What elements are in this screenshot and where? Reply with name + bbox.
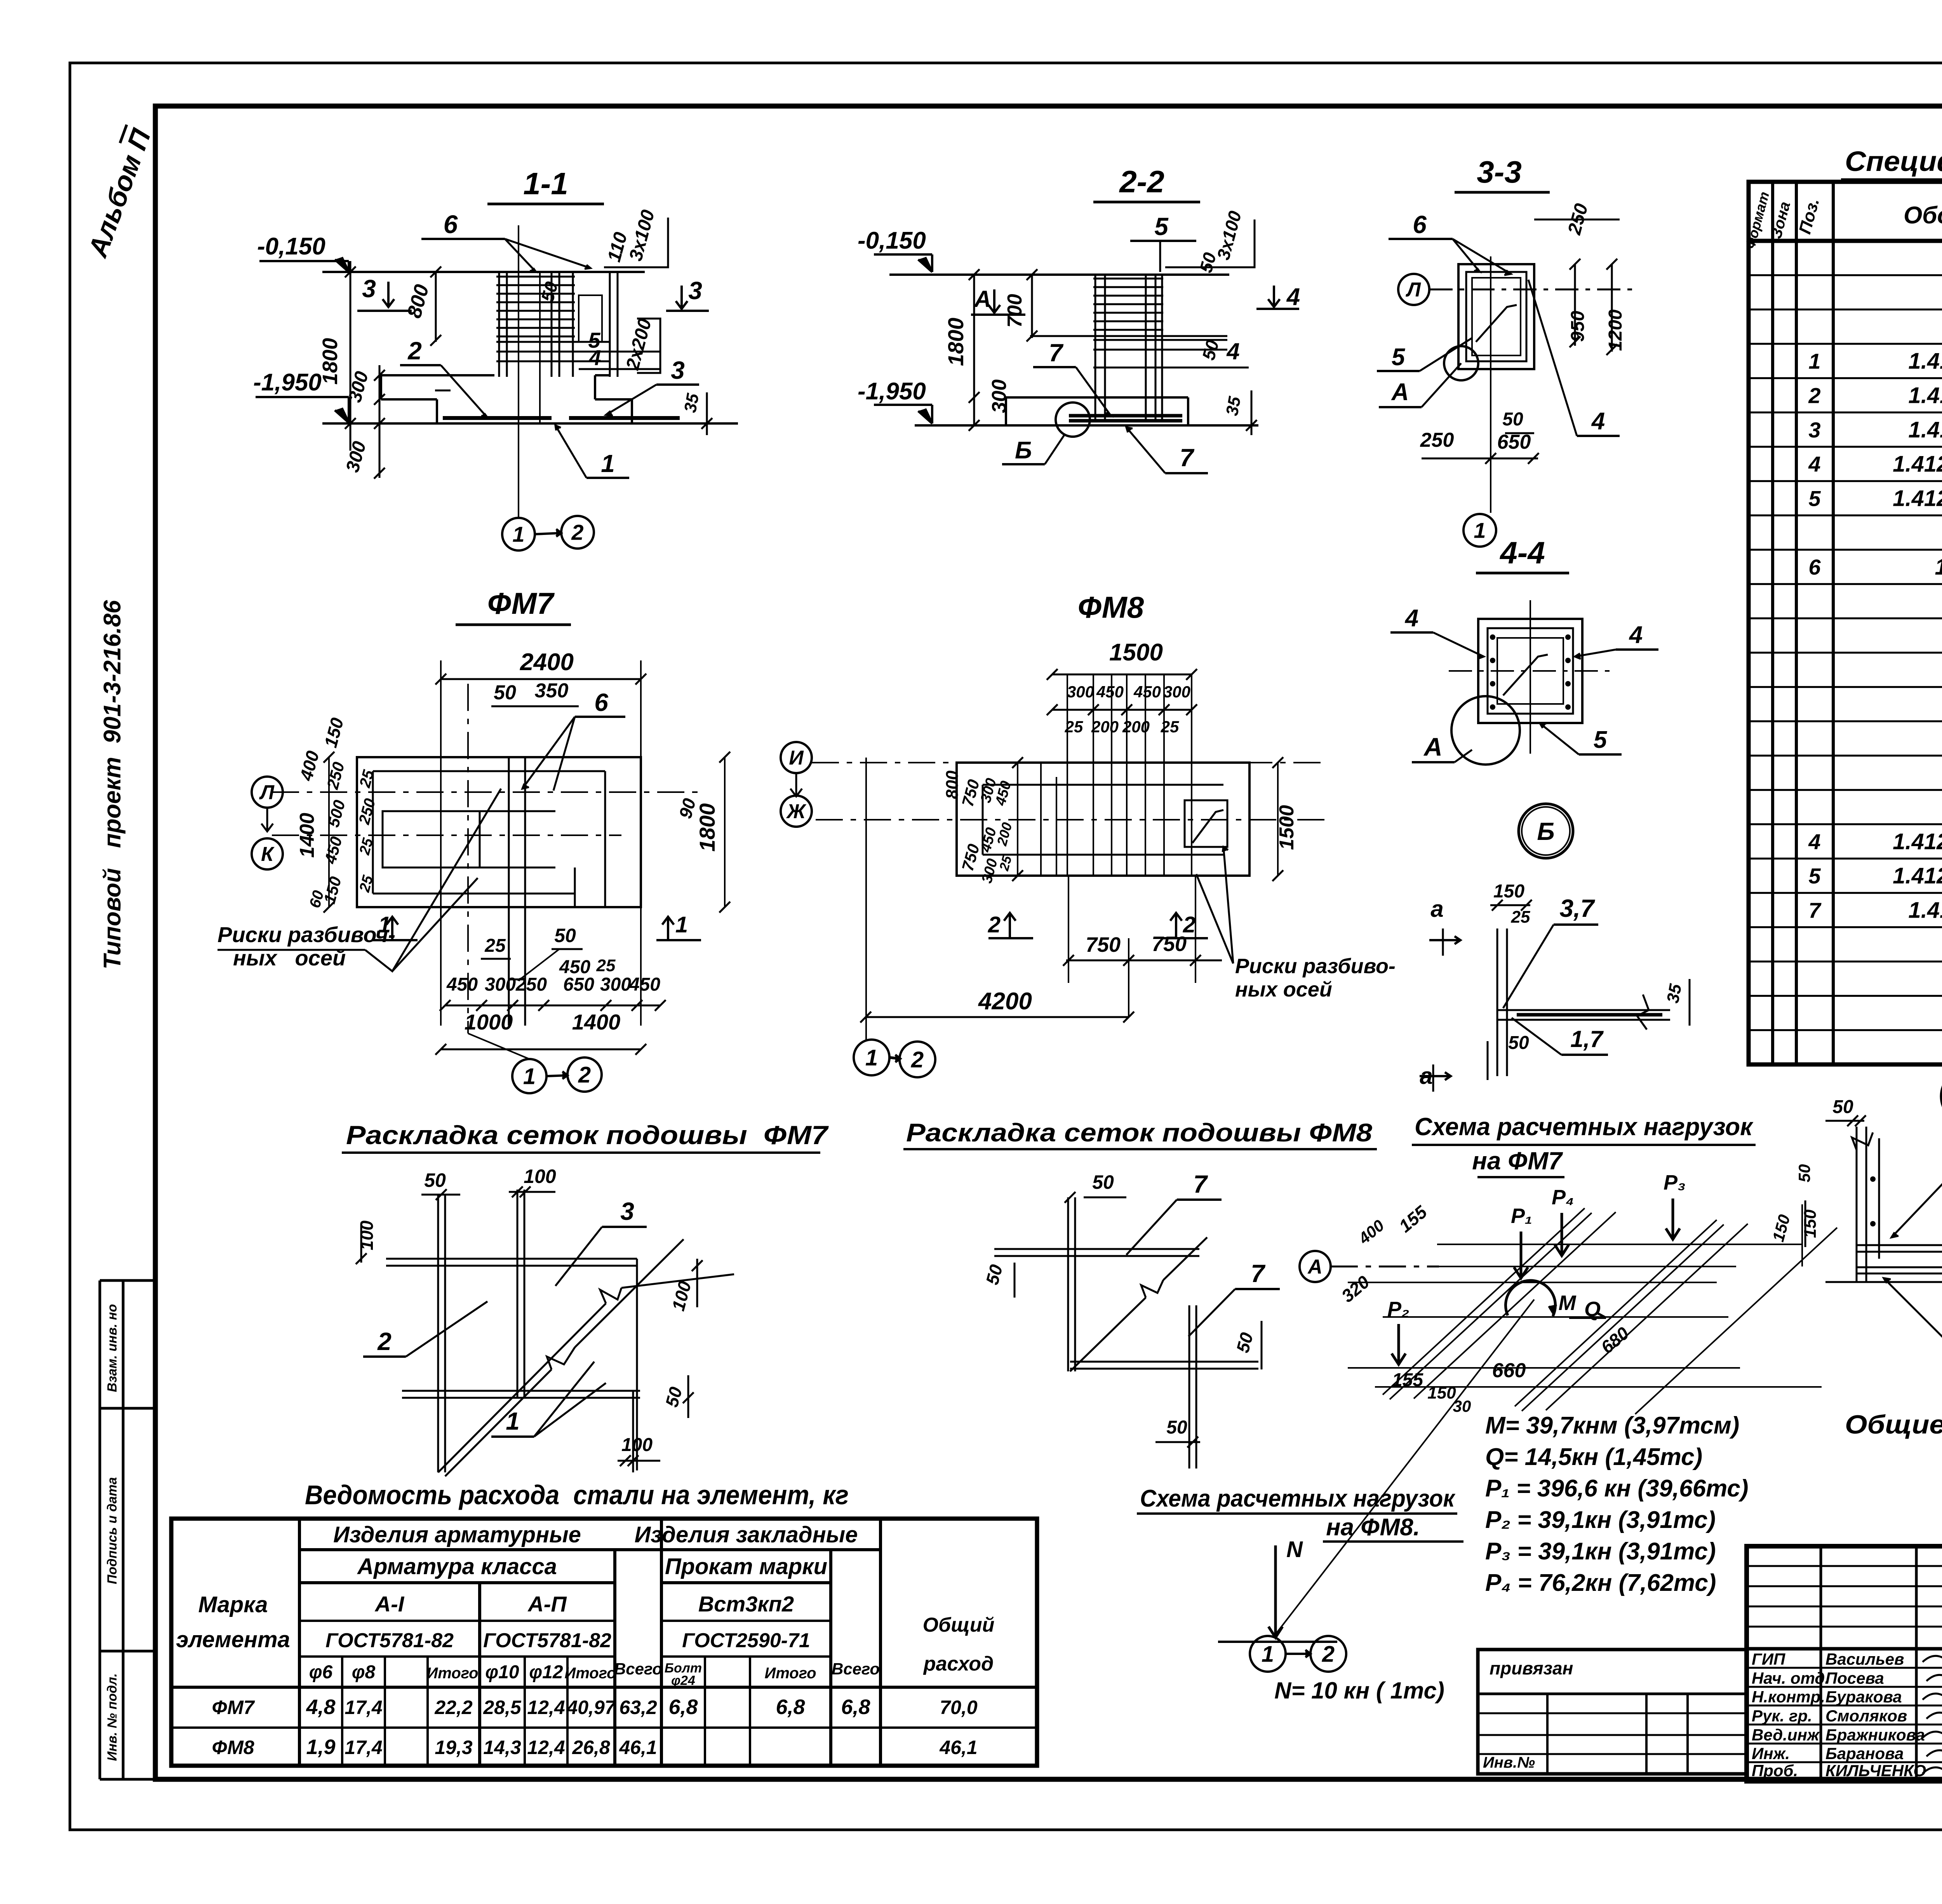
raskladka FM8 horizontal top [994,1248,1199,1250]
section 2-2 slab [1006,396,1188,399]
svg-text:700: 700 [1004,294,1026,328]
svg-text:50: 50 [1795,1164,1813,1183]
svg-text:50: 50 [1508,1033,1529,1053]
svg-text:ГОСТ2590-71: ГОСТ2590-71 [682,1629,810,1652]
svg-text:12,4: 12,4 [527,1697,565,1718]
svg-text:50: 50 [1166,1417,1187,1438]
svg-text:расход: расход [923,1653,994,1675]
svg-text:Поз.: Поз. [1795,196,1823,236]
svg-text:150: 150 [1769,1212,1794,1244]
svg-text:25: 25 [484,935,506,956]
svg-text:N: N [1286,1537,1303,1562]
scheme FM7 axis circle A [1300,1251,1331,1282]
detail B corner lines [1497,928,1498,1076]
section 1-1 bottom level line [322,422,738,425]
svg-text:1: 1 [675,912,688,937]
raskladka FM8 vertical bar left [1067,1197,1069,1371]
section 3-3 detail circle A [1444,346,1478,380]
svg-text:3,7: 3,7 [1560,894,1596,922]
svg-text:4: 4 [1286,284,1300,310]
svg-text:110: 110 [604,230,632,264]
FM8 plan outer rect [957,763,1249,876]
vedomost grid [171,1519,1037,1766]
svg-text:6: 6 [1808,555,1821,579]
svg-text:Ведомость расхода стали на эл: Ведомость расхода стали на элемент, кг [305,1480,849,1510]
svg-text:Итого: Итого [564,1665,616,1682]
FM7 plan left dim chains [328,757,330,907]
svg-text:φ12: φ12 [529,1662,563,1683]
scheme FM7 M arc and Q [1505,1280,1555,1316]
svg-text:3х100: 3х100 [1213,209,1245,262]
svg-text:14,3: 14,3 [483,1737,521,1758]
section 2-2 circle B detail [1056,402,1090,437]
svg-text:300: 300 [1067,683,1094,701]
svg-text:Итого: Итого [764,1665,816,1682]
svg-text:1-1: 1-1 [523,166,568,201]
svg-text:70,0: 70,0 [940,1697,978,1718]
svg-text:3: 3 [688,277,702,305]
svg-text:ФМ7: ФМ7 [212,1697,255,1718]
svg-text:Схема расчетных нагрузок: Схема расчетных нагрузок [1140,1485,1455,1512]
svg-text:1: 1 [512,522,524,547]
svg-text:100: 100 [357,1220,377,1250]
svg-text:5: 5 [1808,486,1821,511]
svg-text:25: 25 [1161,718,1179,736]
FM7 plan axis circles 1 2 [512,1059,546,1093]
svg-text:7: 7 [1808,898,1822,923]
svg-text:200: 200 [1091,718,1119,736]
section 4-4 rebar dots [1490,634,1495,640]
svg-text:N= 10 кн ( 1тс): N= 10 кн ( 1тс) [1274,1678,1444,1704]
svg-text:3-3: 3-3 [1477,155,1522,189]
svg-text:1.412-1/77 вып.3: 1.412-1/77 вып.3 [1893,863,1942,888]
side stamp cells [100,1279,155,1282]
FM7 plan axis circles L K [252,777,283,808]
svg-text:φ6: φ6 [309,1662,333,1683]
svg-text:6,8: 6,8 [776,1695,805,1719]
svg-text:6: 6 [594,688,608,716]
svg-text:250: 250 [323,760,348,791]
svg-text:1800: 1800 [318,338,342,385]
svg-text:1: 1 [1262,1641,1274,1667]
section 1-1 bottom mesh bars [443,416,552,420]
svg-text:680: 680 [1597,1323,1633,1357]
svg-text:ГОСТ5781-82: ГОСТ5781-82 [325,1629,454,1652]
svg-text:2х200: 2х200 [622,316,656,372]
svg-text:Л: Л [1405,279,1421,301]
svg-text:300: 300 [600,974,631,995]
svg-text:155: 155 [1395,1201,1431,1236]
detail A rebar dots [1870,1176,1876,1182]
svg-text:250: 250 [515,974,547,995]
svg-text:Спецификация фундаментов ФМ7,: Спецификация фундаментов ФМ7, ФМ8 [1845,146,1942,177]
svg-text:M= 39,7кнм (3,97тсм): M= 39,7кнм (3,97тсм) [1485,1412,1739,1439]
svg-text:100: 100 [621,1435,653,1455]
svg-text:250: 250 [355,797,379,827]
raskladka FM7 diagonal with break [438,1274,734,1472]
svg-text:Прокат марки: Прокат марки [665,1554,827,1579]
svg-text:300: 300 [485,974,516,995]
svg-text:Посева: Посева [1825,1669,1884,1687]
svg-text:1.412-1/77 вып.3: 1.412-1/77 вып.3 [1893,451,1942,477]
svg-text:155: 155 [1392,1370,1423,1390]
svg-text:φ10: φ10 [485,1662,519,1683]
svg-text:28,5: 28,5 [483,1697,522,1718]
svg-text:4200: 4200 [978,988,1032,1015]
svg-text:Б: Б [1537,817,1554,845]
spec table grid [1749,182,1942,1064]
svg-text:1: 1 [1808,349,1820,373]
section 2-2 dim chain left [973,275,975,425]
svg-text:650: 650 [1497,431,1531,453]
svg-text:P₂ = 39,1кн (3,91тс): P₂ = 39,1кн (3,91тс) [1485,1507,1716,1533]
svg-text:Риски разбивоч-: Риски разбивоч- [218,922,395,947]
svg-text:50: 50 [537,279,562,304]
scheme FM7 axis circles 1 2 bottom [1250,1636,1286,1672]
FM7 plan column strip [508,757,510,1026]
svg-text:Ж: Ж [786,800,807,823]
FM7 plan inner rects [373,770,605,772]
svg-text:4-4: 4-4 [1499,535,1545,570]
svg-text:Марка: Марка [198,1592,268,1617]
svg-text:22,2: 22,2 [434,1697,473,1718]
svg-text:3: 3 [1808,418,1820,442]
svg-text:50: 50 [424,1169,446,1191]
FM8 plan right dim 1500 [1277,763,1279,876]
svg-text:К: К [261,843,275,866]
svg-text:Схема расчетных нагрузок: Схема расчетных нагрузок [1415,1113,1754,1141]
raskladka FM8 diagonal [1070,1237,1207,1371]
svg-text:26,8: 26,8 [572,1737,610,1758]
svg-text:2: 2 [578,1062,591,1087]
svg-text:А-І: А-І [374,1592,405,1616]
svg-text:ФМ8: ФМ8 [212,1737,254,1758]
svg-text:50: 50 [1198,338,1223,362]
detail A bottom level [1825,1281,1942,1283]
svg-text:50: 50 [1232,1330,1257,1355]
svg-text:Баранова: Баранова [1825,1744,1904,1763]
svg-text:150: 150 [1801,1209,1820,1238]
svg-text:1.410-2 вып.1: 1.410-2 вып.1 [1908,417,1942,442]
raskladka FM7 square [386,1258,637,1260]
svg-text:50: 50 [661,1385,686,1409]
svg-text:300: 300 [988,380,1011,413]
svg-text:на ФМ8.: на ФМ8. [1326,1514,1420,1541]
svg-text:Изделия закладные: Изделия закладные [635,1522,858,1547]
svg-text:φ24: φ24 [671,1673,695,1688]
svg-text:6,8: 6,8 [668,1695,698,1719]
svg-text:элемента: элемента [176,1627,290,1652]
section 1-1 axis line [518,225,519,519]
svg-text:2: 2 [1322,1641,1335,1667]
svg-text:3: 3 [362,275,376,303]
raskladka FM7 vertical bars [437,1194,439,1472]
svg-text:50: 50 [1832,1097,1853,1117]
svg-text:25: 25 [1511,908,1530,927]
svg-text:А: А [1423,732,1443,761]
svg-text:6: 6 [444,210,458,239]
svg-text:1.412-1/77 вып.3: 1.412-1/77 вып.3 [1893,486,1942,511]
svg-text:Инв.№: Инв.№ [1483,1754,1535,1771]
svg-text:Б: Б [1015,437,1032,464]
section 4-4 circle A [1451,696,1520,765]
svg-text:Вед.инж.: Вед.инж. [1752,1726,1824,1744]
FM8 plan horizontal axis 2 [816,819,1332,820]
section 2-2 mark 4 [1268,286,1280,307]
svg-text:Вст3кп2: Вст3кп2 [698,1592,794,1616]
svg-text:200: 200 [994,820,1015,848]
section 1-1 step profile [381,374,494,376]
svg-text:Н.контр.: Н.контр. [1752,1688,1825,1706]
svg-text:1200: 1200 [1605,309,1626,351]
svg-text:1500: 1500 [1109,639,1163,666]
svg-text:5: 5 [1154,213,1169,240]
section 2-2 dim 700 [1031,275,1033,338]
svg-text:6: 6 [1413,211,1427,239]
svg-text:Смоляков: Смоляков [1825,1707,1907,1725]
svg-text:Бражникова: Бражникова [1825,1726,1925,1744]
svg-text:5: 5 [1392,344,1406,371]
svg-text:63,2: 63,2 [619,1697,657,1718]
svg-text:2: 2 [1808,383,1820,408]
svg-text:450: 450 [321,834,346,866]
svg-text:1400: 1400 [296,813,318,858]
svg-text:-0,150: -0,150 [257,233,325,260]
svg-text:1.410-2 вып.1: 1.410-2 вып.1 [1908,348,1942,374]
svg-text:1800: 1800 [695,803,719,852]
svg-text:А: А [1307,1256,1323,1278]
svg-text:А: А [973,286,991,312]
section 1-1 axis circles 1 2 [502,518,535,550]
svg-text:17,4: 17,4 [345,1697,382,1718]
svg-text:Подпись и дата: Подпись и дата [105,1477,120,1584]
section 3-3 axis line vertical [1490,256,1491,513]
svg-text:КИЛЬЧЕНКО: КИЛЬЧЕНКО [1825,1761,1926,1780]
svg-text:300: 300 [979,857,1001,885]
svg-text:1.412.1-4: 1.412.1-4 [1935,554,1942,580]
svg-text:Изделия арматурные: Изделия арматурные [333,1522,581,1547]
svg-text:3: 3 [620,1197,634,1225]
svg-text:Q= 14,5кн (1,45тс): Q= 14,5кн (1,45тс) [1485,1444,1702,1470]
svg-text:Нач. отд.: Нач. отд. [1752,1669,1829,1687]
svg-text:750: 750 [1152,932,1187,956]
section 1-1 ground level line [322,271,645,273]
svg-text:ФМ7: ФМ7 [487,586,555,620]
FM7 plan axes [272,791,703,793]
svg-text:Васильев: Васильев [1825,1650,1904,1668]
svg-text:300: 300 [1163,683,1190,701]
svg-text:1: 1 [506,1407,520,1435]
svg-text:P₂: P₂ [1387,1298,1410,1321]
svg-text:150: 150 [1427,1383,1456,1402]
svg-text:ГОСТ5781-82: ГОСТ5781-82 [483,1629,611,1652]
svg-text:400: 400 [1355,1216,1388,1248]
svg-text:А-П: А-П [527,1592,567,1616]
svg-text:Проб.: Проб. [1752,1761,1798,1780]
svg-text:Риски разбиво-: Риски разбиво- [1235,955,1396,978]
svg-text:500: 500 [324,798,349,829]
svg-text:1,9: 1,9 [306,1735,335,1759]
svg-text:25: 25 [997,854,1015,873]
svg-text:150: 150 [1493,881,1524,902]
svg-text:P₄: P₄ [1552,1186,1574,1209]
svg-text:ных осей: ных осей [1235,978,1332,1001]
svg-text:450: 450 [1096,683,1124,701]
title block outer [1747,1546,1942,1781]
svg-text:100: 100 [668,1279,695,1313]
svg-text:4: 4 [1591,408,1605,435]
svg-text:50: 50 [1092,1171,1114,1193]
svg-text:Общий: Общий [923,1614,995,1636]
svg-text:35: 35 [1222,395,1244,417]
svg-text:2: 2 [988,912,1001,937]
svg-text:P₄ = 76,2кн (7,62тс): P₄ = 76,2кн (7,62тс) [1485,1570,1716,1596]
svg-text:φ8: φ8 [352,1662,376,1683]
FM8 plan grid verticals [1067,674,1068,876]
svg-text:И: И [789,747,804,769]
svg-text:300: 300 [345,369,372,404]
svg-text:Типовой проект 901-3-216.86: Типовой проект 901-3-216.86 [99,600,126,969]
svg-text:4: 4 [1226,338,1239,364]
svg-text:ФМ8: ФМ8 [1078,590,1144,624]
svg-text:50: 50 [982,1262,1007,1287]
svg-text:50: 50 [1502,409,1523,430]
svg-text:660: 660 [1492,1359,1526,1382]
svg-text:950: 950 [1568,311,1588,342]
svg-text:350: 350 [535,679,569,702]
svg-text:1: 1 [865,1045,878,1070]
section 2-2 slab mesh bars [1069,414,1182,418]
section 1-1 dim 800 [435,272,437,342]
svg-text:2400: 2400 [520,649,574,676]
svg-text:M: M [1559,1291,1577,1315]
svg-text:P₃ = 39,1кн (3,91тс): P₃ = 39,1кн (3,91тс) [1485,1538,1716,1565]
svg-text:Арматура класса: Арматура класса [357,1554,557,1579]
detail B title circle [1519,804,1573,858]
svg-text:800: 800 [403,282,433,321]
svg-text:1400: 1400 [572,1010,621,1034]
FM8 plan inner structure [983,784,1223,786]
svg-text:ГИП: ГИП [1752,1650,1785,1668]
svg-text:4: 4 [1629,622,1643,648]
detail A circle [1941,1068,1942,1124]
section 2-2 rebar cage [1095,275,1096,420]
aux table privyazan [1478,1650,1747,1774]
svg-text:1500: 1500 [1276,805,1298,850]
svg-text:150: 150 [320,716,347,750]
svg-text:4: 4 [1808,452,1820,476]
section 1-1 column rebar cage [498,272,500,377]
svg-text:Инж.: Инж. [1752,1744,1790,1763]
svg-text:30: 30 [1453,1397,1471,1415]
svg-text:6,8: 6,8 [841,1695,870,1719]
svg-text:Инв. № подл.: Инв. № подл. [105,1673,120,1761]
svg-text:Буракова: Буракова [1825,1688,1902,1706]
svg-text:2: 2 [407,337,422,365]
section 1-1 left dim chain 1800 [350,261,352,451]
section 4-4 axis lines [1530,600,1531,754]
svg-text:P₁: P₁ [1511,1204,1532,1228]
svg-text:1: 1 [601,449,615,477]
scheme FM7 horizontal grid [1437,1244,1802,1245]
FM8 plan axis circles 1 2 [854,1040,889,1075]
svg-text:привязан: привязан [1490,1658,1573,1678]
svg-text:Общие указания приведены на ли: Общие указания приведены на листах 4,5,1… [1845,1410,1942,1439]
svg-text:100: 100 [524,1165,556,1187]
svg-text:7: 7 [1251,1259,1266,1287]
svg-text:450: 450 [629,974,660,995]
svg-text:320: 320 [1338,1272,1374,1306]
svg-text:1: 1 [1474,518,1486,543]
svg-text:4: 4 [588,345,601,370]
svg-text:2: 2 [571,520,583,545]
svg-text:а: а [1430,896,1443,922]
svg-text:-1,950: -1,950 [858,378,926,405]
svg-text:4: 4 [1808,829,1820,854]
svg-text:1,7: 1,7 [1570,1026,1604,1052]
section 3-3 axis circle 1 [1463,514,1496,547]
svg-text:-1,950: -1,950 [253,369,322,396]
svg-text:7: 7 [1180,444,1195,472]
svg-text:19,3: 19,3 [435,1737,473,1758]
svg-text:-0,150: -0,150 [858,227,926,254]
svg-text:3: 3 [671,356,685,384]
scheme FM7 slanted grid [1383,1208,1585,1395]
svg-text:25: 25 [596,956,616,975]
svg-text:12,4: 12,4 [527,1737,565,1758]
svg-text:1000: 1000 [465,1010,513,1034]
svg-text:35: 35 [680,392,703,414]
svg-text:450: 450 [1133,683,1161,701]
svg-text:Рук. гр.: Рук. гр. [1752,1707,1812,1725]
svg-text:Л: Л [259,781,275,804]
svg-text:46,1: 46,1 [939,1737,977,1758]
svg-text:1.410-2 вып.1: 1.410-2 вып.1 [1908,383,1942,408]
svg-text:А: А [1391,379,1409,406]
svg-text:800: 800 [943,770,962,799]
svg-text:46,1: 46,1 [619,1737,657,1758]
title block internals [1820,1546,1822,1781]
svg-text:50: 50 [494,681,516,704]
svg-text:17,4: 17,4 [345,1737,382,1758]
FM7 plan outer rect [357,757,641,907]
svg-text:7: 7 [1193,1170,1208,1198]
svg-text:Всего: Всего [832,1660,880,1678]
svg-text:Итого: Итого [426,1665,478,1682]
svg-text:400: 400 [296,749,323,783]
svg-text:1.410-2 вып.1: 1.410-2 вып.1 [1908,898,1942,923]
section 1-1 left dim chain 300 300 [379,365,381,478]
svg-text:Взам. инв. но: Взам. инв. но [105,1304,120,1392]
svg-text:650: 650 [563,974,594,995]
svg-text:4: 4 [1404,605,1418,632]
section 3-3 square [1458,264,1534,369]
svg-text:2: 2 [911,1047,924,1072]
FM8 plan axis circles I ZH [781,742,812,773]
raskladka FM8 bottom horizontal [1070,1361,1258,1363]
svg-text:4,8: 4,8 [306,1695,335,1719]
section 4-4 square [1478,619,1582,723]
svg-text:на ФМ7: на ФМ7 [1472,1147,1563,1175]
FM8 plan left dims [1017,763,1018,876]
svg-text:35: 35 [1663,982,1685,1005]
section 2-2 ground level [889,273,1229,276]
svg-text:P₃: P₃ [1664,1171,1686,1194]
section 3-3 axis L circle [1398,274,1429,305]
section 1-1 inner dashed stub [579,295,602,342]
svg-text:50: 50 [554,925,576,946]
section 2-2 bottom level [915,424,1258,427]
